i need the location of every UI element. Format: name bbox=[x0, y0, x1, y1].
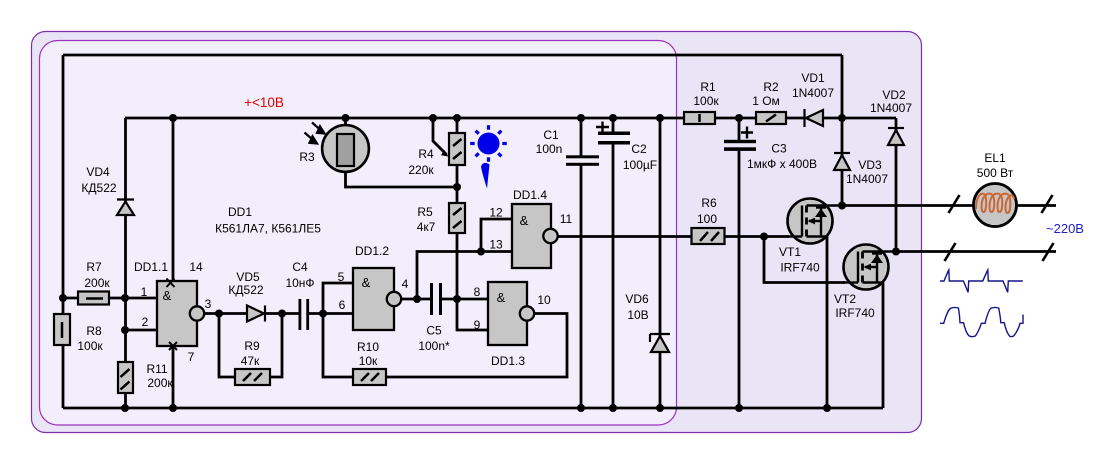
wire C3 top lead bbox=[738, 118, 741, 141]
wire DD1 pin 7 ground lead bbox=[172, 346, 175, 408]
svg-text:VD2: VD2 bbox=[882, 88, 906, 102]
svg-text:4: 4 bbox=[402, 277, 409, 291]
wire DD1.3 output through R10 feedback loop bbox=[323, 314, 567, 378]
svg-text:VD4: VD4 bbox=[86, 165, 110, 179]
svg-text:11: 11 bbox=[560, 212, 573, 226]
wire VD6 branch bbox=[659, 118, 662, 408]
svg-text:DD1.1: DD1.1 bbox=[134, 260, 168, 274]
wire lamp line 220V phase bbox=[842, 204, 1056, 207]
svg-text:3: 3 bbox=[205, 297, 212, 311]
resistor R6 power marks bbox=[700, 232, 719, 241]
junction VD5 cathode node bbox=[278, 310, 286, 318]
light symbol sun rays bbox=[470, 125, 507, 162]
transistor VT1 body circle bbox=[788, 199, 833, 244]
wire VD4 / R11 branch bbox=[124, 118, 127, 408]
junction C1 on supply rail bbox=[577, 114, 585, 122]
svg-text:VD5: VD5 bbox=[236, 270, 260, 284]
resistor R2 power mark bbox=[766, 115, 776, 122]
resistor R10 power marks bbox=[361, 373, 379, 381]
wire +10V supply rail bbox=[125, 117, 896, 120]
inner schematic frame (control section background) bbox=[40, 41, 677, 426]
svg-text:VD6: VD6 bbox=[625, 292, 649, 306]
junction R6-gates node bbox=[760, 233, 768, 241]
wire C5 right plate to DD1.3 pin 8 bbox=[442, 298, 488, 301]
outer schematic frame (power section background) bbox=[32, 32, 922, 433]
junction R3 on supply rail bbox=[342, 114, 350, 122]
svg-text:VT1: VT1 bbox=[779, 245, 801, 259]
svg-text:47к: 47к bbox=[241, 354, 260, 368]
junction R4 top on supply rail bbox=[453, 114, 461, 122]
resistor R1 power mark bbox=[698, 114, 701, 122]
resistor R11 200k body bbox=[118, 362, 133, 393]
svg-text:1N4007: 1N4007 bbox=[846, 172, 888, 186]
junction C3 on common rail bbox=[735, 404, 743, 412]
junction C4-pin5-pin6 node bbox=[319, 310, 327, 318]
svg-text:C2: C2 bbox=[631, 142, 647, 156]
junction VT2 drain node bbox=[892, 248, 900, 256]
resistor R7 200k body bbox=[78, 292, 109, 305]
resistor R4 220k body bbox=[449, 133, 465, 165]
svg-text:6: 6 bbox=[339, 298, 346, 312]
junction DD1.2 output node bbox=[413, 295, 421, 303]
wire DD1.1 output to C4 left plate bbox=[197, 312, 299, 315]
wire C4 right plate to DD1.2 pin 6 bbox=[309, 312, 353, 315]
junction C3 / R1-R2 node bbox=[735, 114, 743, 122]
resistor R9 47k body bbox=[235, 369, 270, 385]
wire DD1.2 output to C5 left plate bbox=[394, 298, 430, 301]
junction VT1 source on common rail bbox=[823, 404, 831, 412]
svg-text:&: & bbox=[163, 288, 172, 303]
wire C3 bottom lead bbox=[738, 149, 741, 408]
svg-text:2: 2 bbox=[142, 315, 149, 329]
svg-text:13: 13 bbox=[489, 238, 503, 252]
transistor VT2 internal symbol bbox=[843, 252, 896, 283]
capacitor C5 plates bbox=[430, 283, 442, 315]
wire R7 row to DD1.1 pin 1 bbox=[63, 297, 157, 300]
junction VD6 on common rail bbox=[656, 404, 664, 412]
svg-text:100: 100 bbox=[697, 212, 717, 226]
wire DD1.4 pin 12 jumper bbox=[481, 219, 512, 252]
svg-text:200к: 200к bbox=[84, 276, 110, 290]
svg-text:R3: R3 bbox=[299, 150, 315, 164]
svg-text:1 Ом: 1 Ом bbox=[752, 94, 780, 108]
wire C1 top lead bbox=[580, 118, 583, 156]
svg-text:DD1: DD1 bbox=[228, 205, 252, 219]
mains break mark neutral left bbox=[945, 243, 956, 261]
resistor R7 power mark bbox=[86, 297, 103, 300]
svg-text:14: 14 bbox=[189, 260, 203, 274]
diode VD2 1N4007 bbox=[888, 128, 904, 145]
svg-text:&: & bbox=[497, 290, 506, 305]
wire 220V neutral line bbox=[896, 250, 1056, 253]
wire R3 bottom to R4/R5 node bbox=[346, 170, 458, 187]
wire gate branch to VT2 bbox=[764, 237, 845, 283]
wire R9 loop around VD5 bbox=[219, 314, 282, 378]
svg-text:C5: C5 bbox=[426, 324, 442, 338]
svg-text:VD1: VD1 bbox=[801, 71, 825, 85]
resistor R10 10k body bbox=[353, 369, 386, 385]
svg-text:500 Вт: 500 Вт bbox=[977, 166, 1014, 180]
diode VD5 KD522 bbox=[247, 306, 265, 322]
svg-text:100µF: 100µF bbox=[623, 158, 657, 172]
resistor R4 wiper arrowhead bbox=[441, 150, 449, 157]
transistor VT1 internal symbol bbox=[787, 206, 842, 237]
IC gate DD1.1 box bbox=[157, 281, 197, 346]
resistor R8 power mark bbox=[61, 322, 64, 338]
wire C2 bottom lead bbox=[612, 143, 615, 408]
svg-text:10: 10 bbox=[537, 293, 551, 307]
wire left frame vertical bbox=[62, 55, 65, 408]
svg-text:&: & bbox=[362, 275, 371, 290]
mains break mark phase right bbox=[1042, 195, 1053, 213]
svg-text:DD1.4: DD1.4 bbox=[513, 188, 547, 202]
IC gate DD1.1 output bubble bbox=[190, 306, 204, 320]
IC gate DD1.2 box bbox=[353, 268, 394, 330]
svg-text:R2: R2 bbox=[763, 80, 779, 94]
resistor R4 power marks bbox=[453, 139, 462, 159]
wire R4-R5 divider chain bbox=[456, 118, 459, 299]
junction VD4-R7-pin1 node bbox=[121, 294, 129, 302]
capacitor C4 plates bbox=[299, 299, 310, 330]
wire C1 bottom lead bbox=[580, 165, 583, 408]
capacitor C3 plates bbox=[724, 140, 756, 151]
IC gate DD1.4 box bbox=[512, 204, 551, 268]
svg-text:R7: R7 bbox=[86, 260, 102, 274]
svg-text:7: 7 bbox=[188, 350, 195, 364]
svg-text:R8: R8 bbox=[86, 324, 102, 338]
IC gate DD1.4 output bubble bbox=[543, 229, 557, 243]
svg-text:1N4007: 1N4007 bbox=[792, 86, 834, 100]
zener diode VD6 10V bbox=[650, 334, 670, 352]
mains break mark neutral right bbox=[1043, 243, 1054, 261]
wire DD1.3 pin 9 jumper bbox=[457, 299, 488, 330]
photoresistor R3 light arrows bbox=[305, 123, 325, 144]
resistor R8 100k body bbox=[54, 314, 70, 345]
IC gate DD1.3 output bubble bbox=[520, 306, 534, 320]
junction DD1.1 output node bbox=[215, 310, 223, 318]
junction R11 on common rail bbox=[121, 404, 129, 412]
svg-text:IRF740: IRF740 bbox=[780, 261, 820, 275]
resistor R9 power marks bbox=[243, 373, 262, 381]
svg-text:10нФ: 10нФ bbox=[285, 276, 314, 290]
junction C1 on common rail bbox=[577, 404, 585, 412]
svg-text:12: 12 bbox=[489, 206, 503, 220]
resistor R2 1 Ohm body bbox=[756, 112, 786, 124]
transistor VT2 body circle bbox=[844, 245, 889, 290]
svg-text:VT2: VT2 bbox=[834, 292, 856, 306]
resistor R11 power marks bbox=[121, 369, 130, 390]
junction R4-R5-R3 node bbox=[453, 183, 461, 191]
wire DD1.1 pin 2 row bbox=[125, 329, 157, 332]
capacitor C1 plates bbox=[566, 155, 599, 166]
svg-text:R6: R6 bbox=[701, 196, 717, 210]
svg-text:C1: C1 bbox=[543, 128, 559, 142]
wire top mains rail bbox=[63, 54, 842, 57]
transistor VT2 body diode bbox=[871, 255, 883, 264]
svg-text:1мкФ x 400В: 1мкФ x 400В bbox=[747, 157, 817, 171]
svg-text:DD1.2: DD1.2 bbox=[355, 244, 389, 258]
IC gate DD1.1 pin 14 cross mark bbox=[167, 279, 175, 288]
svg-text:220к: 220к bbox=[408, 163, 434, 177]
svg-text:100к: 100к bbox=[77, 339, 103, 353]
wire DD1.4 output through R6 to VT1 gate bbox=[557, 235, 789, 238]
capacitor C2 plates (electrolytic) bbox=[598, 132, 630, 145]
wire C2 top lead bbox=[612, 118, 615, 133]
svg-text:&: & bbox=[520, 213, 529, 228]
junction C2 on supply rail bbox=[609, 114, 617, 122]
svg-text:C4: C4 bbox=[292, 260, 308, 274]
svg-text:R9: R9 bbox=[244, 339, 260, 353]
photoresistor R3 inner resistor rectangle bbox=[337, 134, 354, 166]
junction C2 on common rail bbox=[609, 404, 617, 412]
resistor R1 100k body bbox=[684, 112, 715, 124]
svg-text:5: 5 bbox=[338, 270, 345, 284]
photoresistor R3 body circle bbox=[322, 125, 369, 172]
svg-text:КД522: КД522 bbox=[228, 283, 263, 297]
svg-text:8: 8 bbox=[474, 285, 481, 299]
wire VT1 source to common rail bbox=[826, 237, 829, 409]
diode VD4 KD522 bbox=[117, 200, 134, 216]
svg-text:100n*: 100n* bbox=[418, 339, 450, 353]
IC gate DD1.2 output bubble bbox=[387, 292, 401, 306]
junction pin12-pin13 node bbox=[477, 248, 485, 256]
waveform chopped sine bbox=[940, 307, 1023, 336]
svg-text:КД522: КД522 bbox=[81, 181, 116, 195]
junction C5-pin8-pin9 node bbox=[453, 295, 461, 303]
junction VD6 on supply rail bbox=[656, 114, 664, 122]
svg-text:R10: R10 bbox=[357, 340, 379, 354]
IC gate DD1.1 pin 7 cross mark bbox=[169, 342, 177, 350]
wire VD2 branch bbox=[895, 118, 898, 252]
junction R4 wiper on supply rail bbox=[429, 114, 437, 122]
svg-text:R11: R11 bbox=[146, 362, 167, 376]
junction R7 left on frame bbox=[59, 294, 67, 302]
svg-text:100к: 100к bbox=[693, 94, 719, 108]
lamp EL1 body circle bbox=[974, 184, 1017, 227]
light symbol beam drop bbox=[481, 163, 490, 189]
svg-text:200к: 200к bbox=[147, 376, 173, 390]
svg-text:10В: 10В bbox=[627, 308, 648, 322]
svg-text:IRF740: IRF740 bbox=[835, 306, 875, 320]
svg-text:100n: 100n bbox=[536, 142, 563, 156]
waveform phase-control output bbox=[940, 270, 1023, 292]
capacitor C2 plus sign bbox=[596, 122, 609, 133]
junction pin7 on common rail bbox=[169, 404, 177, 412]
transistor VT1 body diode bbox=[815, 209, 827, 218]
svg-text:R5: R5 bbox=[417, 205, 433, 219]
wire R4 wiper bbox=[433, 118, 447, 155]
svg-text:R1: R1 bbox=[700, 80, 716, 94]
svg-text:9: 9 bbox=[474, 318, 481, 332]
wire DD1 pin 14 supply lead bbox=[172, 118, 175, 281]
diode VD3 1N4007 bbox=[834, 153, 850, 170]
svg-text:C3: C3 bbox=[771, 142, 787, 156]
resistor R6 100 body bbox=[692, 228, 725, 244]
wire R3 top lead bbox=[344, 118, 347, 127]
wire DD1.2 pin 5 jumper bbox=[323, 283, 353, 314]
IC gate DD1.3 box bbox=[488, 282, 527, 345]
svg-text:DD1.3: DD1.3 bbox=[491, 354, 525, 368]
svg-text:EL1: EL1 bbox=[984, 151, 1006, 165]
junction VT1 drain node bbox=[838, 202, 846, 210]
light symbol sun disc bbox=[478, 133, 500, 155]
diode VD1 1N4007 bbox=[805, 109, 824, 127]
lamp EL1 filament coil bbox=[976, 194, 1014, 213]
junction pin14 on supply rail bbox=[169, 114, 177, 122]
wire bottom common rail bbox=[63, 407, 883, 410]
transistor VT2 substrate arrowhead bbox=[864, 264, 872, 271]
wire VT2 source to common rail bbox=[882, 283, 885, 409]
resistor R5 4k7 body bbox=[449, 203, 465, 233]
svg-text:R4: R4 bbox=[418, 147, 434, 161]
svg-text:1N4007: 1N4007 bbox=[870, 101, 912, 115]
resistor R5 power marks bbox=[453, 208, 462, 228]
mains break mark phase left bbox=[949, 195, 960, 213]
svg-text:VD3: VD3 bbox=[858, 158, 882, 172]
wire mains drop through VD3 bbox=[841, 55, 844, 206]
svg-text:~220В: ~220В bbox=[1046, 221, 1084, 236]
svg-text:1: 1 bbox=[141, 285, 148, 299]
svg-text:4к7: 4к7 bbox=[417, 220, 436, 234]
wire DD1.2 output to DD1.4 pin 13 bbox=[417, 252, 512, 300]
svg-text:10к: 10к bbox=[359, 354, 378, 368]
capacitor C3 plus sign bbox=[741, 127, 753, 139]
transistor VT1 substrate arrowhead bbox=[808, 218, 816, 225]
svg-text:К561ЛА7, К561ЛЕ5: К561ЛА7, К561ЛЕ5 bbox=[215, 222, 321, 236]
junction VD1 output node bbox=[838, 114, 846, 122]
svg-text:+<10В: +<10В bbox=[244, 95, 284, 110]
junction pin2 node bbox=[121, 326, 129, 334]
